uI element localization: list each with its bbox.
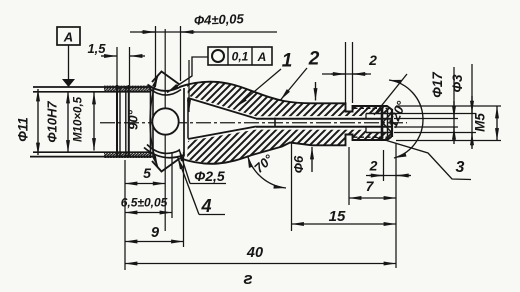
counterbore f3 bottom	[366, 132, 392, 134]
centerline main axis	[100, 122, 407, 124]
seat arc top 1	[148, 85, 183, 91]
svg-text:1,5: 1,5	[87, 41, 106, 56]
body bottom outline	[180, 135, 392, 164]
svg-text:Ф10Н7: Ф10Н7	[45, 101, 60, 143]
seat insert face vertical	[183, 88, 185, 157]
dim 15	[292, 223, 397, 225]
end face	[391, 109, 393, 137]
dim 5	[125, 183, 165, 185]
tolerance leader	[167, 57, 208, 93]
left dim f11	[37, 89, 39, 155]
svg-text:Ф17: Ф17	[430, 71, 445, 98]
svg-text:Ф11: Ф11	[16, 117, 31, 142]
dim 1,5 arrows	[101, 55, 117, 57]
svg-text:0,1: 0,1	[232, 50, 249, 64]
svg-text:Ф4±0,05: Ф4±0,05	[194, 11, 245, 28]
left cylinder bore bottom line	[33, 151, 151, 153]
thread end vertical pair 1	[116, 85, 118, 158]
svg-text:2: 2	[308, 49, 320, 70]
internal funnel bottom	[188, 127, 256, 140]
dim 6,5	[125, 212, 172, 214]
dim f3	[471, 64, 473, 147]
dim 9	[125, 241, 184, 243]
dim f4 extension right	[180, 26, 182, 81]
thread end vertical pair 2	[125, 86, 127, 157]
seat arc bottom 1	[144, 148, 184, 158]
seat lip bottom peak	[152, 159, 180, 172]
concentricity symbol	[212, 50, 224, 62]
groove dim 2 line	[322, 73, 371, 75]
left cylinder outer top line	[33, 86, 152, 88]
seat entry vertical pair	[150, 87, 152, 157]
ball vertical centerline	[164, 29, 166, 231]
svg-text:6,5±0,05: 6,5±0,05	[121, 196, 168, 210]
svg-text:Ф6: Ф6	[291, 155, 306, 173]
svg-text:3: 3	[456, 159, 465, 176]
dim f2,5 leader	[179, 149, 190, 184]
hatch top wall of body	[187, 82, 392, 117]
svg-text:г: г	[243, 269, 252, 288]
svg-text:7: 7	[366, 178, 375, 194]
svg-text:5: 5	[143, 165, 151, 181]
countersink construction line upper	[374, 74, 407, 115]
thread relief thick vertical	[381, 108, 384, 139]
svg-text:1: 1	[282, 51, 293, 72]
svg-text:90°: 90°	[126, 109, 141, 129]
label 4	[178, 157, 200, 215]
dim f6 bottom arrow	[311, 147, 313, 172]
body top outline	[180, 82, 392, 112]
channel bottom line	[256, 126, 392, 128]
M5 thread line top	[353, 107, 387, 109]
svg-text:2: 2	[368, 52, 377, 68]
groove dim 2 extensions	[345, 42, 347, 103]
tolerance frame	[208, 47, 272, 65]
right extension lines	[396, 105, 501, 107]
hatch bottom wall of body	[187, 130, 392, 164]
countersink cone	[383, 113, 393, 133]
channel top line	[256, 118, 392, 120]
datum stem	[68, 45, 70, 79]
svg-text:A: A	[63, 30, 73, 45]
svg-text:М10×0,5: М10×0,5	[73, 96, 85, 142]
svg-text:4: 4	[200, 196, 211, 216]
dim f17	[453, 67, 455, 141]
ball	[152, 108, 178, 134]
svg-text:9: 9	[151, 225, 159, 241]
dim f4 line	[130, 31, 277, 33]
120deg arc	[389, 80, 423, 158]
left cylinder bore top line	[33, 91, 151, 93]
thread band fine hatch left cylinder top	[104, 86, 152, 92]
datum A box	[57, 27, 80, 45]
datum triangle	[62, 79, 75, 87]
dim 1,5 extensions	[116, 47, 118, 85]
svg-text:40: 40	[246, 245, 263, 261]
svg-text:М5: М5	[473, 113, 488, 132]
internal funnel top	[188, 98, 256, 119]
dim 2 tip	[366, 175, 411, 177]
90deg arc	[150, 75, 158, 168]
svg-text:Ф3: Ф3	[450, 74, 465, 93]
counterbore f3 top	[366, 113, 392, 115]
bottom extension verticals	[124, 160, 126, 270]
thread band fine hatch left cylinder bottom	[104, 152, 152, 158]
M5 thread line bottom	[353, 136, 387, 138]
dim f6 top arrow	[315, 82, 317, 101]
dim 7	[349, 197, 396, 199]
seat arc bottom 2	[147, 145, 179, 154]
dim f4 extension left	[155, 26, 157, 84]
70deg arc	[248, 155, 287, 188]
left cylinder outer bottom line	[30, 156, 153, 158]
svg-text:15: 15	[329, 208, 346, 225]
left dim M10x0,5	[93, 92, 95, 151]
tip inner vertical	[387, 109, 389, 137]
left dim f10H7	[67, 91, 69, 153]
svg-text:Ф2,5: Ф2,5	[194, 168, 225, 184]
dim 40	[125, 263, 396, 265]
dim M5	[496, 106, 498, 141]
seat arc top 2	[149, 89, 181, 96]
counterbore step verticals	[365, 114, 367, 119]
svg-text:2: 2	[369, 158, 378, 174]
leader of label 3 with countersink line	[375, 137, 471, 180]
svg-text:A: A	[257, 50, 267, 64]
seat lip top peak	[152, 72, 180, 85]
